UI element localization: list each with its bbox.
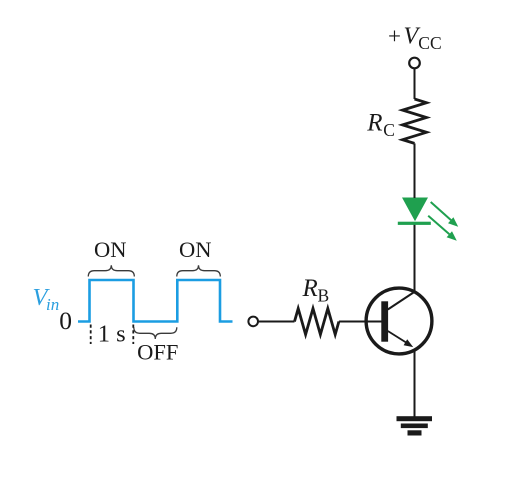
label RB — [302, 275, 330, 306]
resistor RB — [295, 309, 339, 335]
svg-text:in: in — [46, 295, 59, 314]
svg-text:B: B — [318, 286, 330, 306]
wire input terminal to RB — [258, 321, 294, 323]
svg-text:0: 0 — [59, 306, 72, 335]
input terminal — [248, 317, 258, 327]
svg-text:CC: CC — [418, 33, 441, 53]
transistor Q1 collector stroke — [388, 292, 415, 310]
svg-text:+: + — [388, 23, 401, 48]
brace over first pulse — [88, 265, 134, 276]
svg-text:OFF: OFF — [137, 339, 178, 364]
waveform Vin square wave — [78, 280, 233, 322]
LED D1 cathode bar — [398, 222, 431, 225]
ground — [397, 416, 433, 435]
LED D1 light arrow 1 — [431, 202, 459, 227]
resistor RC — [403, 99, 427, 143]
wire RC to VCC terminal — [414, 69, 416, 100]
svg-text:R: R — [366, 110, 382, 137]
wire emitter vertical — [414, 350, 416, 417]
svg-text:ON: ON — [94, 237, 127, 262]
svg-text:1 s: 1 s — [98, 321, 126, 348]
dashed marker left — [90, 325, 92, 345]
svg-text:R: R — [302, 275, 318, 302]
svg-text:C: C — [383, 120, 395, 140]
label RC — [366, 110, 395, 141]
brace over second pulse — [177, 265, 221, 276]
node Vin label — [33, 284, 60, 314]
transistor Q1 circle — [366, 288, 432, 354]
LED D1 light arrow 2 — [428, 216, 457, 241]
LED D1 triangle (anode) — [402, 198, 428, 222]
wire RB to transistor base — [339, 321, 382, 323]
transistor Q1 emitter stroke with arrow — [388, 331, 413, 347]
terminal +VCC — [409, 58, 420, 69]
dashed marker right — [132, 325, 134, 345]
wire LED anode to RC — [414, 143, 416, 198]
svg-text:ON: ON — [179, 237, 212, 262]
transistor Q1 base bar — [381, 301, 388, 341]
brace under OFF interval — [134, 327, 177, 339]
label +VCC — [388, 23, 442, 53]
wire collector vertical — [414, 225, 416, 293]
